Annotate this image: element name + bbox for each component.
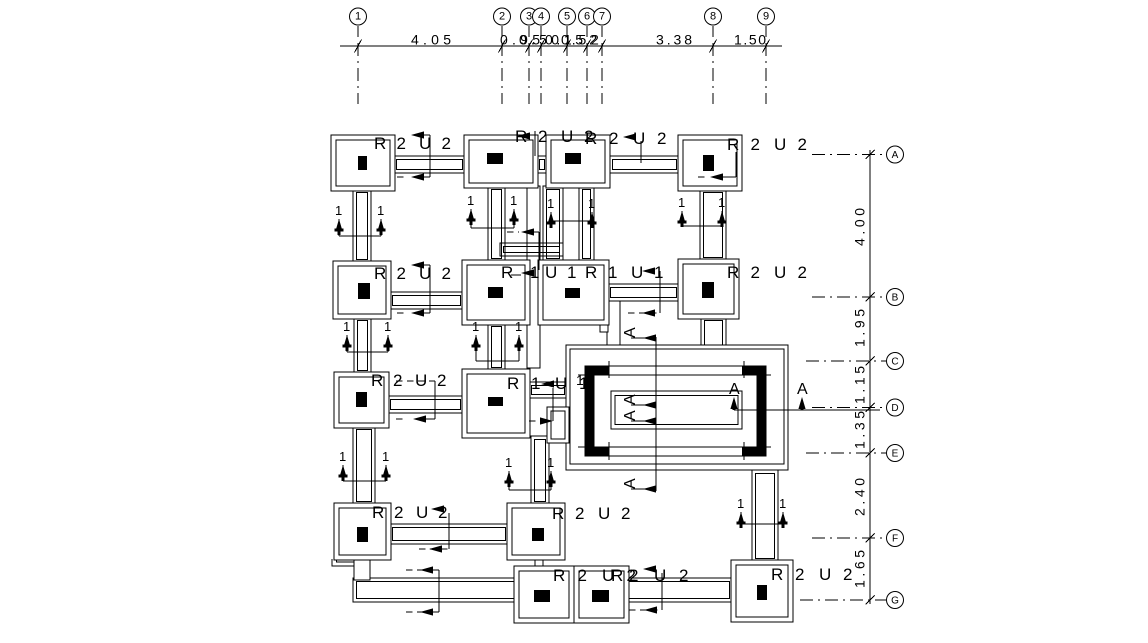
beam F1 left jog xyxy=(332,559,354,566)
beam grid34 strip xyxy=(527,186,540,368)
label G2 xyxy=(611,566,688,585)
leader D2 xyxy=(529,388,553,425)
grid bubble 8 xyxy=(705,8,722,25)
section marker A at y405 xyxy=(622,394,656,409)
svg-text:1: 1 xyxy=(547,196,554,211)
grid bubble F xyxy=(887,530,904,547)
leader B2 xyxy=(507,228,539,270)
svg-text:R: R xyxy=(553,566,565,585)
svg-text:R: R xyxy=(585,129,597,148)
beam B3B4-tank strip xyxy=(607,301,620,347)
label arrow A2 xyxy=(517,132,530,139)
svg-text:A: A xyxy=(622,327,639,338)
grid bubble 6 xyxy=(579,8,596,25)
svg-text:1: 1 xyxy=(579,374,588,393)
tank bottom wall corner fills xyxy=(585,447,609,456)
footing D1 xyxy=(334,372,389,428)
svg-text:1: 1 xyxy=(515,319,522,334)
svg-text:A: A xyxy=(622,394,639,405)
svg-text:2: 2 xyxy=(629,566,638,585)
grid bubble 3 xyxy=(521,8,538,25)
svg-text:A: A xyxy=(729,381,740,398)
footing A2 xyxy=(464,135,538,188)
footing F1 xyxy=(334,503,391,560)
svg-text:6: 6 xyxy=(584,11,590,23)
svg-text:2: 2 xyxy=(397,134,406,153)
beam B1-B2 xyxy=(389,292,464,309)
footing D2 xyxy=(462,369,530,438)
svg-text:3: 3 xyxy=(526,11,532,23)
svg-text:R: R xyxy=(585,263,597,282)
svg-text:1.65: 1.65 xyxy=(852,550,868,588)
label A2 xyxy=(515,127,593,146)
svg-text:R: R xyxy=(371,371,383,390)
rebar callout V-A3B3 xyxy=(551,212,592,221)
svg-text:1: 1 xyxy=(343,319,350,334)
svg-text:2: 2 xyxy=(499,11,505,23)
svg-text:1: 1 xyxy=(467,193,474,208)
beam F1-band strip xyxy=(354,558,370,580)
svg-text:F: F xyxy=(892,534,898,545)
svg-text:2: 2 xyxy=(578,566,587,585)
section marker A at y421 xyxy=(622,410,656,425)
tank left wall (solid) xyxy=(585,366,594,456)
footing G1 xyxy=(514,566,574,623)
right dashdot grid lines xyxy=(800,155,886,601)
beam B4-tank strip xyxy=(701,317,726,349)
beam A1-B1 strip xyxy=(353,189,371,263)
svg-text:2: 2 xyxy=(798,135,807,154)
tank right wall (solid) xyxy=(757,366,766,456)
grid bubble B xyxy=(887,289,904,306)
beam F1-F2 xyxy=(389,524,509,544)
grid bubble G xyxy=(887,592,904,609)
svg-text:U: U xyxy=(416,503,428,522)
svg-text:U: U xyxy=(774,263,786,282)
beam A4-B4 strip xyxy=(700,189,726,261)
footing B3 xyxy=(538,260,609,325)
svg-text:1: 1 xyxy=(384,319,391,334)
svg-text:2: 2 xyxy=(437,371,446,390)
label arrow F1 xyxy=(431,505,444,512)
svg-text:2: 2 xyxy=(442,134,451,153)
label arrow A1 xyxy=(411,131,424,138)
svg-text:1: 1 xyxy=(567,263,576,282)
label A1 xyxy=(374,134,451,153)
svg-text:A: A xyxy=(797,381,808,398)
top dimension texts xyxy=(411,32,766,48)
rebar callout V-D2F2 xyxy=(509,471,551,490)
top dimension ticks xyxy=(355,40,770,53)
label arrow B1 xyxy=(411,261,424,268)
beam B3-B4 xyxy=(607,284,680,301)
footing A3 xyxy=(546,135,610,188)
svg-text:R: R xyxy=(374,134,386,153)
svg-text:1: 1 xyxy=(531,374,540,393)
svg-text:3.38: 3.38 xyxy=(656,32,692,48)
svg-text:U: U xyxy=(555,374,567,393)
svg-text:2: 2 xyxy=(397,264,406,283)
svg-text:B: B xyxy=(892,293,899,304)
svg-text:2: 2 xyxy=(609,129,618,148)
top grid stems and dashdot lines xyxy=(358,26,766,104)
rebar callout V-A1B1 xyxy=(339,219,381,236)
svg-text:1: 1 xyxy=(608,263,617,282)
section marker A at x802 xyxy=(797,381,808,410)
beam D1-F1 strip xyxy=(353,426,375,505)
beam bottom band xyxy=(353,578,733,602)
svg-text:1: 1 xyxy=(505,455,512,470)
svg-text:A: A xyxy=(892,150,899,161)
svg-text:R: R xyxy=(771,565,783,584)
svg-text:1.15: 1.15 xyxy=(852,366,868,404)
label arrow A2 tail xyxy=(534,131,536,156)
label D1 xyxy=(371,371,446,390)
svg-text:2: 2 xyxy=(751,263,760,282)
label arrow A3 xyxy=(623,133,636,140)
beam D1-D2 xyxy=(387,396,464,413)
svg-text:2: 2 xyxy=(575,504,584,523)
svg-text:G: G xyxy=(891,596,899,607)
footing F2 xyxy=(507,503,565,560)
svg-text:1.50: 1.50 xyxy=(734,32,766,48)
leader F1 xyxy=(419,513,449,553)
label F1 xyxy=(372,503,447,522)
svg-text:2: 2 xyxy=(798,263,807,282)
svg-text:2: 2 xyxy=(657,129,666,148)
section marker A at x734 xyxy=(729,381,740,410)
svg-text:1: 1 xyxy=(355,11,361,23)
beam A2-B2 strip xyxy=(488,186,505,262)
svg-text:2: 2 xyxy=(751,135,760,154)
svg-text:1: 1 xyxy=(339,449,346,464)
section line B3 leader xyxy=(659,287,661,313)
svg-text:1: 1 xyxy=(779,496,786,511)
label A4 xyxy=(727,135,807,154)
svg-text:A: A xyxy=(622,478,639,489)
svg-text:1: 1 xyxy=(510,193,517,208)
tank top wall corner fills xyxy=(585,366,609,375)
svg-text:R: R xyxy=(501,263,513,282)
beam D2-F2 strip xyxy=(531,436,549,505)
svg-text:4: 4 xyxy=(538,11,544,23)
beam tank-G3 strip xyxy=(752,470,778,562)
svg-text:1: 1 xyxy=(678,195,685,210)
right dimension ticks xyxy=(866,150,875,605)
beam A1-A2 xyxy=(393,156,466,173)
tank outer boundary xyxy=(566,345,788,470)
svg-text:D: D xyxy=(891,403,898,414)
svg-text:2: 2 xyxy=(679,566,688,585)
svg-text:1: 1 xyxy=(737,496,744,511)
top dimension line xyxy=(340,45,782,47)
grid bubble 1 xyxy=(350,8,367,25)
grid bubble A xyxy=(887,146,904,163)
label arrow D2 xyxy=(541,380,554,387)
footing B4 xyxy=(678,259,739,319)
label arrow B3 xyxy=(642,267,655,274)
beam B1-D1 strip xyxy=(354,317,371,374)
svg-text:R: R xyxy=(552,504,564,523)
rebar callout V-A2B2 xyxy=(471,209,514,228)
footing G3 xyxy=(731,560,793,622)
svg-text:1: 1 xyxy=(472,319,479,334)
section marker A at y489 xyxy=(622,478,656,493)
svg-text:R: R xyxy=(727,135,739,154)
leader D1 xyxy=(396,381,435,423)
footing A4 xyxy=(678,135,742,191)
label arrow B2 xyxy=(521,269,534,276)
label B2 xyxy=(501,263,576,282)
beam F2-G1 strip xyxy=(535,558,543,568)
rebar callout V-A4B4 xyxy=(682,211,722,226)
label A3 xyxy=(585,129,666,148)
leader B1 xyxy=(397,265,430,317)
footing B1 xyxy=(333,261,391,319)
svg-text:2: 2 xyxy=(591,32,599,48)
grid bubble 2 xyxy=(494,8,511,25)
beam A3-A4 xyxy=(609,156,680,173)
beam A3-B3 right strip xyxy=(579,186,594,262)
footing A1 xyxy=(331,135,395,191)
footing G2 xyxy=(574,566,629,623)
tank wall outline xyxy=(585,366,766,456)
rebar callout V-B1D1 xyxy=(347,335,388,352)
svg-text:0.50: 0.50 xyxy=(519,32,559,48)
svg-text:1: 1 xyxy=(377,203,384,218)
svg-text:2: 2 xyxy=(442,264,451,283)
svg-text:7: 7 xyxy=(599,11,605,23)
svg-text:1.35: 1.35 xyxy=(852,411,868,449)
section line A-A vertical xyxy=(655,337,657,491)
grid bubble D xyxy=(887,399,904,416)
svg-text:2: 2 xyxy=(394,503,403,522)
beam A2-A3 xyxy=(536,156,548,173)
grid bubble 4 xyxy=(533,8,550,25)
label arrow G2 xyxy=(643,565,656,572)
svg-text:1: 1 xyxy=(335,203,342,218)
svg-text:2.40: 2.40 xyxy=(852,478,868,516)
grid bubble C xyxy=(887,353,904,370)
footing small pit xyxy=(547,407,569,443)
leader A1 xyxy=(397,135,430,181)
svg-text:4.05: 4.05 xyxy=(411,32,451,48)
svg-text:2: 2 xyxy=(795,565,804,584)
grid bubble E xyxy=(887,445,904,462)
svg-text:9: 9 xyxy=(763,11,769,23)
label D2 xyxy=(507,374,588,393)
beam B3 step xyxy=(600,325,608,332)
svg-text:R: R xyxy=(374,264,386,283)
svg-text:2: 2 xyxy=(621,504,630,523)
svg-text:E: E xyxy=(892,449,899,460)
beam B2-D2 strip xyxy=(488,323,505,371)
label F2 xyxy=(552,504,630,523)
grid bubble 9 xyxy=(758,8,775,25)
rebar callout V-D1F1 xyxy=(343,465,386,481)
label B3 xyxy=(585,263,663,282)
svg-text:U: U xyxy=(774,135,786,154)
leader G2 xyxy=(629,573,662,614)
svg-text:1: 1 xyxy=(547,455,554,470)
svg-text:A: A xyxy=(622,410,639,421)
leader band1 xyxy=(406,566,439,615)
tank wall tick marks xyxy=(578,361,771,460)
section line A-A horizontal xyxy=(734,409,880,411)
leader B3 xyxy=(628,271,660,317)
right dimension texts xyxy=(852,208,868,588)
section marker A at y338 xyxy=(622,327,656,342)
svg-text:R: R xyxy=(372,503,384,522)
beam AB-bridge xyxy=(500,243,563,256)
svg-text:2: 2 xyxy=(538,127,547,146)
right dimension line xyxy=(869,150,871,604)
rebar callout V-B2D2 xyxy=(476,335,519,361)
svg-text:8: 8 xyxy=(710,11,716,23)
label arrow A3 tail xyxy=(640,141,642,163)
svg-text:U: U xyxy=(598,504,610,523)
svg-text:U: U xyxy=(561,127,573,146)
label G1 xyxy=(553,566,636,585)
leader A4 xyxy=(698,152,736,181)
svg-text:1: 1 xyxy=(718,195,725,210)
rebar callout V-tankG3 xyxy=(741,512,783,524)
svg-text:C: C xyxy=(891,357,898,368)
svg-text:4.00: 4.00 xyxy=(852,208,868,246)
label B4 xyxy=(727,263,807,282)
beam D2-tank xyxy=(528,382,568,398)
svg-text:1.95: 1.95 xyxy=(852,309,868,347)
svg-text:U: U xyxy=(631,263,643,282)
svg-text:R: R xyxy=(507,374,519,393)
label G3 xyxy=(771,565,852,584)
svg-text:U: U xyxy=(819,565,831,584)
label B1 xyxy=(374,264,451,283)
svg-text:R: R xyxy=(611,566,623,585)
svg-text:R: R xyxy=(727,263,739,282)
svg-text:1: 1 xyxy=(382,449,389,464)
footing B2 xyxy=(462,260,530,325)
tank inner basin xyxy=(611,391,742,429)
grid bubble 5 xyxy=(559,8,576,25)
svg-text:1: 1 xyxy=(654,263,663,282)
svg-text:U: U xyxy=(545,263,557,282)
svg-text:5: 5 xyxy=(564,11,570,23)
grid bubble 7 xyxy=(594,8,611,25)
beam A3-B3 left strip xyxy=(543,186,563,262)
svg-text:1: 1 xyxy=(588,196,595,211)
